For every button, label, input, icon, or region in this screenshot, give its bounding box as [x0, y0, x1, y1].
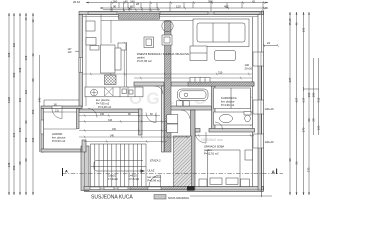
svg-text:153: 153: [31, 109, 35, 114]
svg-text:211: 211: [55, 110, 59, 113]
svg-text:P=7,95 m2: P=7,95 m2: [96, 102, 110, 106]
svg-text:152: 152: [18, 127, 22, 132]
svg-text:P=12,91 m2: P=12,91 m2: [204, 152, 219, 156]
svg-text:100000m2 com: 100000m2 com: [201, 138, 223, 142]
svg-text:HODNIK: HODNIK: [52, 132, 63, 136]
svg-text:SPAVACA SOBA: SPAVACA SOBA: [204, 145, 224, 149]
svg-text:523: 523: [12, 72, 16, 77]
svg-text:A: A: [65, 169, 68, 174]
svg-text:136: 136: [31, 137, 35, 142]
svg-text:1148: 1148: [7, 97, 11, 103]
svg-text:SUSJEDNA KUCA: SUSJEDNA KUCA: [91, 194, 133, 200]
svg-text:1=8,10: 1=8,10: [129, 174, 138, 178]
svg-text:P=27,95 m2: P=27,95 m2: [137, 59, 152, 63]
svg-text:17x5=29: 17x5=29: [129, 177, 140, 181]
svg-text:160: 160: [317, 125, 321, 130]
svg-text:60: 60: [130, 4, 134, 8]
svg-text:90: 90: [24, 120, 28, 124]
svg-text:parket: parket: [137, 56, 145, 60]
svg-text:512: 512: [317, 97, 321, 102]
svg-text:36: 36: [24, 158, 28, 162]
svg-text:42: 42: [31, 53, 35, 57]
svg-text:310: 310: [218, 70, 223, 74]
svg-text:A: A: [272, 169, 275, 174]
svg-text:P=3,99 m2: P=3,99 m2: [148, 179, 162, 183]
svg-text:116: 116: [12, 42, 16, 47]
svg-text:170: 170: [307, 167, 311, 172]
svg-text:398: 398: [208, 0, 213, 3]
svg-text:196: 196: [307, 92, 311, 97]
svg-text:KUPAONICA: KUPAONICA: [221, 96, 237, 100]
svg-text:639: 639: [18, 67, 22, 72]
svg-text:90: 90: [113, 4, 117, 8]
svg-text:ULAZ: ULAZ: [148, 169, 155, 173]
svg-text:NOVA GRADNJA: NOVA GRADNJA: [168, 196, 189, 200]
svg-text:ker. plocice: ker. plocice: [148, 175, 162, 179]
svg-text:ker. plocice: ker. plocice: [52, 136, 66, 140]
svg-text:116: 116: [24, 89, 28, 94]
svg-text:340: 340: [110, 135, 115, 138]
svg-text:340: 340: [38, 97, 42, 102]
svg-text:161: 161: [302, 27, 306, 32]
svg-text:5,6x10: 5,6x10: [108, 174, 117, 178]
svg-text:152: 152: [12, 165, 16, 170]
svg-text:140+20: 140+20: [265, 140, 275, 144]
svg-text:452: 452: [224, 4, 229, 8]
svg-text:161: 161: [12, 132, 16, 137]
svg-text:110: 110: [68, 51, 72, 54]
svg-text:153: 153: [24, 137, 28, 142]
svg-text:25: 25: [312, 118, 316, 122]
svg-text:parket: parket: [204, 148, 212, 152]
svg-text:116: 116: [18, 97, 22, 102]
svg-text:P=4,99 m2: P=4,99 m2: [221, 103, 235, 107]
svg-text:90: 90: [18, 161, 22, 165]
svg-text:170: 170: [302, 127, 306, 132]
svg-text:627: 627: [288, 77, 292, 82]
svg-text:240: 240: [100, 113, 105, 116]
svg-text:36: 36: [295, 161, 299, 165]
svg-text:20+20: 20+20: [245, 67, 253, 71]
svg-text:P=6,53 m2: P=6,53 m2: [52, 139, 66, 143]
svg-text:408: 408: [24, 55, 28, 60]
svg-text:P=3,28 m2: P=3,28 m2: [98, 105, 112, 109]
svg-text:26.42: 26.42: [73, 0, 80, 4]
svg-text:190: 190: [312, 92, 316, 97]
svg-text:160: 160: [113, 0, 118, 3]
svg-text:627: 627: [295, 97, 299, 102]
svg-text:343: 343: [108, 119, 113, 122]
svg-text:17,6x29: 17,6x29: [108, 177, 118, 181]
svg-text:46: 46: [295, 22, 299, 26]
svg-text:140: 140: [245, 63, 250, 67]
svg-text:90: 90: [31, 78, 35, 82]
svg-text:160: 160: [112, 128, 117, 131]
svg-text:140+20: 140+20: [265, 107, 275, 111]
svg-text:42: 42: [31, 19, 35, 23]
svg-text:90: 90: [307, 118, 311, 122]
svg-text:24: 24: [267, 41, 271, 45]
svg-text:45.28: 45.28: [288, 18, 292, 25]
svg-text:46: 46: [24, 17, 28, 21]
svg-text:DNEVNI BORAVAK I KUHINJA I BLA: DNEVNI BORAVAK I KUHINJA I BLAGOVA.: [137, 52, 190, 56]
svg-text:28: 28: [136, 2, 140, 6]
svg-text:138: 138: [7, 162, 11, 167]
svg-text:408: 408: [7, 52, 11, 57]
svg-text:ETAZA 2: ETAZA 2: [150, 159, 161, 163]
svg-text:42: 42: [252, 0, 256, 3]
svg-text:120: 120: [176, 4, 181, 8]
svg-text:36: 36: [288, 158, 292, 162]
svg-text:240: 240: [130, 0, 135, 3]
svg-text:ker. plocice: ker. plocice: [96, 98, 110, 102]
svg-text:40: 40: [125, 0, 129, 3]
svg-text:617: 617: [302, 97, 306, 102]
svg-text:ker. plocice: ker. plocice: [221, 100, 235, 104]
